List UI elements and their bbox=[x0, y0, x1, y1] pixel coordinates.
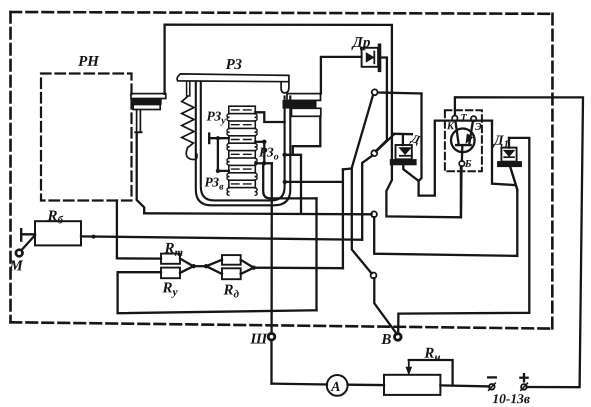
svg-text:Б: Б bbox=[464, 159, 472, 170]
svg-text:Rн: Rн bbox=[423, 346, 440, 364]
svg-text:В: В bbox=[380, 332, 391, 348]
svg-text:А: А bbox=[330, 380, 340, 395]
svg-text:РЗу: РЗу bbox=[207, 108, 227, 126]
svg-text:РЗ: РЗ bbox=[226, 57, 243, 73]
svg-text:10-13в: 10-13в bbox=[492, 391, 530, 406]
svg-text:Д1: Д1 bbox=[492, 134, 509, 151]
svg-text:РЗв: РЗв bbox=[205, 174, 225, 192]
svg-text:К: К bbox=[446, 121, 455, 132]
svg-text:Rд: Rд bbox=[222, 282, 239, 300]
svg-text:РН: РН bbox=[78, 54, 100, 70]
svg-text:Rу: Rу bbox=[161, 280, 178, 298]
svg-text:Ш: Ш bbox=[249, 331, 268, 347]
svg-text:М: М bbox=[8, 258, 23, 274]
svg-text:Rб: Rб bbox=[46, 208, 63, 226]
svg-text:Т: Т bbox=[460, 113, 467, 124]
svg-text:Rт: Rт bbox=[163, 241, 183, 259]
svg-text:Др: Др bbox=[351, 35, 371, 51]
svg-text:Э: Э bbox=[475, 122, 482, 133]
svg-text:РЗо: РЗо bbox=[259, 144, 279, 162]
